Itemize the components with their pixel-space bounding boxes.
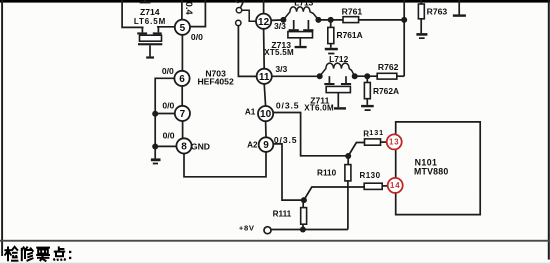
svg-text:R761: R761 <box>342 7 363 17</box>
svg-text:8: 8 <box>181 142 187 153</box>
svg-text:LT6.5M: LT6.5M <box>134 17 166 26</box>
svg-text:0/0: 0/0 <box>163 130 175 140</box>
svg-text:11: 11 <box>259 72 270 83</box>
svg-text:MTV880: MTV880 <box>414 167 448 177</box>
svg-text:13: 13 <box>389 138 399 147</box>
svg-text:131: 131 <box>369 128 384 137</box>
svg-text:0/0: 0/0 <box>191 32 203 42</box>
svg-text:Z714: Z714 <box>140 7 160 17</box>
svg-text:0/0: 0/0 <box>162 100 174 110</box>
svg-text:3/3: 3/3 <box>274 21 286 31</box>
svg-text:R762A: R762A <box>373 86 399 96</box>
svg-text:XT5.5M: XT5.5M <box>264 48 294 57</box>
svg-text:0/0: 0/0 <box>162 66 174 76</box>
svg-text:L713: L713 <box>294 0 313 8</box>
svg-text:R130: R130 <box>359 171 380 180</box>
svg-text:A2: A2 <box>247 141 258 150</box>
svg-text:6: 6 <box>179 74 185 85</box>
svg-text:7: 7 <box>180 109 186 120</box>
svg-text:5: 5 <box>180 23 186 34</box>
svg-text:0.4: 0.4 <box>184 2 195 16</box>
svg-text:GND: GND <box>191 141 210 151</box>
svg-text:14: 14 <box>390 181 400 190</box>
svg-text:R110: R110 <box>317 169 337 178</box>
svg-text:9: 9 <box>263 140 269 151</box>
svg-text:+8V: +8V <box>239 224 255 233</box>
svg-text:XT6.0M: XT6.0M <box>304 104 334 113</box>
svg-text:R762: R762 <box>378 62 399 72</box>
svg-text:A1: A1 <box>245 107 256 116</box>
svg-text:12: 12 <box>258 17 270 28</box>
svg-text:10: 10 <box>260 109 272 120</box>
svg-text:3/3: 3/3 <box>275 64 287 74</box>
svg-text:0/3.5: 0/3.5 <box>274 135 298 145</box>
svg-text:R763: R763 <box>427 7 448 17</box>
svg-text:L712: L712 <box>329 54 348 64</box>
svg-text:0/3.5: 0/3.5 <box>276 100 300 110</box>
svg-text:R111: R111 <box>273 209 292 218</box>
svg-text:HEF4052: HEF4052 <box>197 77 234 87</box>
svg-text:R761A: R761A <box>337 30 363 40</box>
